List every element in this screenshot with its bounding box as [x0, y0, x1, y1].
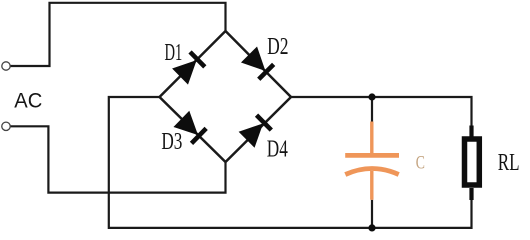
svg-text:D1: D1	[165, 39, 183, 66]
svg-text:D4: D4	[267, 136, 288, 163]
svg-text:C: C	[416, 152, 425, 173]
svg-text:AC: AC	[14, 89, 42, 113]
svg-text:D3: D3	[161, 128, 182, 155]
svg-text:RL: RL	[498, 149, 520, 176]
svg-text:D2: D2	[267, 33, 288, 60]
